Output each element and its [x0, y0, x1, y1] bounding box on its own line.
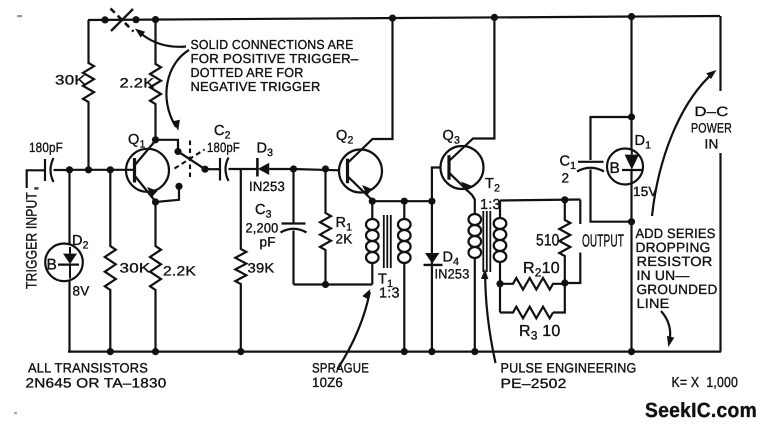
wire C3/R1 bottom node — [294, 283, 373, 285]
svg-text:K= X 1,000: K= X 1,000 — [672, 375, 739, 391]
dashed selector diagonal — [175, 150, 205, 169]
wire input to base node — [54, 169, 70, 171]
arrow to ungrounded line — [661, 311, 670, 343]
svg-text:2: 2 — [562, 171, 570, 186]
resistor 510 — [559, 200, 570, 283]
svg-text:39K: 39K — [248, 261, 275, 276]
node C3 top junction — [290, 165, 297, 172]
transformer T1 secondary winding — [403, 201, 405, 219]
svg-text:PULSE ENGINEERING: PULSE ENGINEERING — [501, 361, 637, 376]
transformer T2 secondary winding — [499, 201, 501, 219]
transistor Q3 emitter arrow — [461, 182, 471, 192]
svg-text:2N645 OR TA–1830: 2N645 OR TA–1830 — [26, 376, 167, 391]
arrow note to top X — [138, 31, 187, 47]
resistor R2 10 — [500, 278, 565, 290]
wire T2 secondary top to output — [500, 200, 580, 201]
node D1 branch ground junction — [628, 348, 635, 355]
scan speck top-left — [17, 15, 22, 17]
transformer T1 primary winding — [371, 201, 373, 219]
transistor Q2 emitter arrow — [362, 185, 372, 195]
svg-text:LINE: LINE — [637, 296, 670, 311]
wire D4 branch — [431, 201, 433, 351]
node 30K lower ground junction — [107, 348, 114, 355]
svg-text:1:3: 1:3 — [379, 286, 400, 302]
node R2 left junction — [496, 280, 503, 287]
node D4 top junction — [428, 198, 435, 205]
node Q1 emitter junction — [152, 198, 159, 205]
svg-text:2,200: 2,200 — [246, 221, 279, 236]
svg-text:IN UN—: IN UN— — [637, 268, 690, 283]
wire D1 main branch upper — [630, 17, 632, 150]
node Q3 collector rail junction — [491, 14, 498, 21]
svg-text:pF: pF — [260, 235, 276, 250]
svg-text:OUTPUT: OUTPUT — [582, 231, 624, 251]
zener diode D1 circle — [607, 149, 643, 185]
node 2.2K lower ground junction — [152, 348, 159, 355]
wire D1 main branch lower — [630, 170, 632, 352]
transistor Q2 collector — [348, 18, 393, 163]
svg-text:IN253: IN253 — [435, 267, 470, 282]
transistor Q3 emitter — [449, 173, 475, 214]
scan speck bottom-left — [14, 412, 17, 414]
node junction dot right of top X — [132, 16, 139, 23]
node T2 primary bottom — [471, 348, 478, 355]
wire T1 top link — [372, 200, 432, 202]
node Q1 collector junction — [152, 136, 159, 143]
node T1 secondary top — [401, 198, 408, 205]
svg-text:510: 510 — [536, 232, 560, 250]
svg-text:SeekIC.com: SeekIC.com — [645, 399, 757, 422]
wire selector to C2 — [205, 168, 219, 170]
resistor 2.2K lower emitter — [150, 202, 161, 352]
transistor Q2 circle — [339, 150, 382, 193]
wire output lower stub — [565, 253, 581, 284]
svg-text:ALL TRANSISTORS: ALL TRANSISTORS — [28, 361, 148, 376]
node C1 top junction — [628, 113, 635, 120]
transistor Q1 base bar — [133, 158, 136, 183]
transistor Q1 collector — [135, 141, 156, 166]
node D1 branch rail junction — [628, 13, 635, 20]
capacitor C3 — [282, 222, 306, 224]
wire Q3 base link — [432, 168, 441, 202]
resistor 2.2K upper collector load — [150, 20, 161, 140]
transistor Q1 circle — [126, 149, 169, 192]
svg-text:TRIGGER INPUT: TRIGGER INPUT — [24, 192, 41, 289]
wire D2 branch lower — [68, 281, 70, 352]
svg-text:PE–2502: PE–2502 — [501, 376, 567, 391]
svg-text:B: B — [610, 160, 620, 177]
resistor 30K upper — [83, 20, 94, 170]
zener diode D2 symbol — [63, 254, 77, 264]
wire bottom ground rail — [68, 351, 721, 353]
svg-text:NEGATIVE TRIGGER: NEGATIVE TRIGGER — [191, 79, 321, 94]
wire output upper stub — [579, 200, 581, 225]
wire emitter stub to selector — [156, 187, 180, 203]
node 30K-base junction — [85, 166, 92, 173]
wire C1 loop upper — [591, 117, 632, 160]
resistor 39K — [235, 169, 246, 352]
node R1 bottom junction — [322, 281, 329, 288]
svg-text:2.2K: 2.2K — [120, 76, 155, 91]
zener diode D2 circle — [45, 243, 83, 281]
transistor Q2 base bar — [346, 159, 349, 184]
node selector output — [201, 166, 208, 173]
transformer T2 primary winding — [468, 214, 481, 258]
svg-text:10Z6: 10Z6 — [312, 375, 343, 390]
dashed selector vertical — [189, 141, 191, 180]
svg-text:FOR POSITIVE TRIGGER–: FOR POSITIVE TRIGGER– — [191, 51, 360, 66]
transformer T1 core — [383, 215, 385, 268]
wire D3 to Q2 base — [293, 169, 340, 170]
scan tick near trigger input — [34, 187, 38, 189]
capacitor 180pF input — [44, 159, 46, 181]
node 510 top junction — [561, 196, 568, 203]
svg-text:180pF: 180pF — [207, 140, 240, 155]
node 39K bottom — [237, 348, 244, 355]
node R2 right junction — [561, 279, 568, 286]
transistor Q1 emitter — [135, 176, 156, 202]
transistor Q3 circle — [441, 146, 484, 189]
wire selector solid diagonal — [178, 152, 205, 170]
svg-text:1:3: 1:3 — [480, 197, 501, 213]
capacitor C2 — [219, 158, 221, 181]
node selector lower stub — [175, 183, 182, 190]
wire R3 left branch — [499, 284, 501, 313]
node junction dot left of top X — [101, 16, 108, 23]
svg-text:R210: R210 — [523, 260, 560, 280]
node Q2 collector rail junction — [389, 15, 396, 22]
svg-text:2.2K: 2.2K — [163, 264, 196, 279]
diode D3 — [256, 158, 259, 177]
node 30K lower top junction — [107, 166, 114, 173]
zener diode D1 symbol — [625, 155, 639, 170]
transistor Q2 emitter — [348, 176, 372, 199]
svg-text:RESISTOR: RESISTOR — [637, 254, 713, 269]
wire C2 to D3 — [229, 168, 252, 170]
diode D4 — [425, 253, 439, 264]
svg-text:DOTTED ARE FOR: DOTTED ARE FOR — [191, 65, 304, 80]
resistor R3 10 — [500, 307, 553, 319]
svg-text:B: B — [47, 257, 57, 274]
capacitor C3 branch lower — [292, 231, 294, 285]
node selector upper stub — [174, 148, 181, 155]
resistor R1 2K — [320, 169, 331, 285]
arrow to d-c power line — [652, 72, 714, 216]
node C1 bottom junction — [628, 218, 635, 225]
node input junction — [66, 166, 73, 173]
node R1 top junction — [322, 165, 329, 172]
capacitor C3 branch upper — [292, 169, 294, 223]
node D4 bottom — [428, 348, 435, 355]
svg-text:SOLID CONNECTIONS ARE: SOLID CONNECTIONS ARE — [191, 37, 354, 52]
svg-text:30K: 30K — [55, 73, 86, 88]
wire D2 branch upper — [68, 170, 70, 245]
node T1 primary top — [369, 198, 376, 205]
transistor Q3 base bar — [447, 155, 450, 180]
wire right vertical (D-C power in line) — [719, 16, 721, 91]
svg-text:IN: IN — [705, 137, 719, 152]
svg-text:2K: 2K — [336, 232, 353, 247]
transformer T2 core — [482, 211, 484, 272]
svg-text:GROUNDED: GROUNDED — [637, 282, 718, 297]
svg-text:180pF: 180pF — [29, 140, 63, 155]
arrow sprague to T1 — [338, 292, 370, 369]
transistor Q3 collector — [449, 17, 494, 161]
svg-text:ADD SERIES: ADD SERIES — [636, 226, 716, 241]
svg-text:POWER: POWER — [691, 121, 732, 136]
node 2.2K top rail junction — [152, 16, 159, 23]
dotted-connection X on top rail — [111, 9, 133, 31]
wire collector stub to selector — [156, 140, 179, 152]
wire base rail — [70, 169, 135, 171]
wire top supply rail — [88, 16, 720, 20]
svg-text:30K: 30K — [120, 261, 151, 276]
svg-text:IN253: IN253 — [249, 179, 285, 194]
wire trigger input lead — [27, 170, 44, 188]
resistor 30K lower bias — [105, 170, 116, 352]
svg-text:DROPPING: DROPPING — [636, 240, 711, 255]
svg-text:D–C: D–C — [695, 104, 729, 119]
svg-text:8V: 8V — [73, 284, 90, 299]
capacitor C1 — [578, 161, 604, 163]
arrow note to selector X — [166, 50, 189, 127]
arrow pulse engineering to T2 — [485, 272, 495, 363]
svg-text:R3 10: R3 10 — [519, 323, 560, 343]
node T1 secondary bottom — [401, 348, 408, 355]
wire C1 loop lower — [591, 170, 632, 222]
wire R3 right branch — [553, 283, 565, 313]
transistor Q1 emitter arrow — [147, 187, 158, 197]
